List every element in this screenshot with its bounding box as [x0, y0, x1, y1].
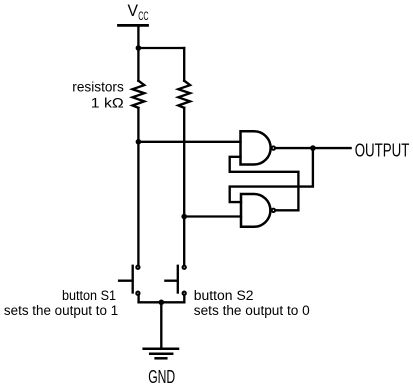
svg-text:button S2: button S2 — [194, 288, 254, 303]
node S2 reset junction dot — [181, 214, 187, 220]
nand gate U2 bubble — [272, 209, 275, 212]
node output junction dot — [310, 145, 316, 151]
svg-text:1 kΩ: 1 kΩ — [91, 95, 124, 111]
button S1 stem — [119, 280, 132, 282]
wire reset node to bottom NAND lower input — [184, 215, 241, 217]
button S1 top terminal circle — [136, 266, 139, 269]
wire feedback output node to U2 upper input — [230, 148, 313, 202]
node top junction dot — [136, 45, 142, 51]
button S1 bottom terminal circle — [136, 292, 139, 295]
label button S1 — [4, 288, 118, 318]
ground symbol bar 2 — [150, 352, 172, 355]
ground symbol bar 3 — [156, 357, 167, 360]
svg-text:button S1: button S1 — [62, 288, 116, 303]
resistor R2 1k — [178, 81, 190, 108]
wire feedback U2 output to U1 lower input — [230, 157, 299, 211]
button S2 top terminal circle — [183, 266, 186, 269]
nand gate U1 body — [241, 131, 271, 164]
svg-text:GND: GND — [148, 366, 175, 387]
wire left column to resistor R1 — [137, 48, 139, 81]
Vcc power symbol bar — [119, 24, 148, 27]
resistor R1 1k — [133, 81, 145, 108]
svg-text:sets the output to 1: sets the output to 1 — [4, 303, 118, 318]
nand gate U2 body — [241, 194, 270, 227]
node ground junction dot — [159, 300, 165, 306]
button S1 actuator bar — [132, 266, 134, 293]
svg-text:sets the output to 0: sets the output to 0 — [194, 303, 310, 318]
label button S2 — [194, 288, 310, 318]
wire top horizontal to right column — [138, 47, 184, 49]
wire Vcc bar to top node — [137, 25, 139, 48]
button S2 actuator bar — [177, 266, 179, 293]
svg-text:V: V — [128, 1, 139, 20]
button S2 stem — [165, 280, 177, 282]
node S1 set junction dot — [136, 139, 142, 145]
button S2 bottom terminal circle — [183, 292, 186, 295]
label resistors 1 kOhm — [72, 79, 124, 111]
wire left column resistor to button S1 — [137, 108, 139, 264]
ground symbol bar 1 — [144, 348, 178, 351]
wire right column resistor to button S2 — [183, 108, 185, 264]
svg-text:resistors: resistors — [72, 79, 124, 95]
wire right column to resistor R2 — [183, 48, 185, 81]
wire S1 bottom to ground rail — [137, 296, 139, 303]
wire U1 output to OUTPUT — [276, 147, 351, 149]
svg-text:CC: CC — [138, 11, 149, 23]
nand gate U1 bubble — [272, 146, 275, 149]
svg-text:OUTPUT: OUTPUT — [355, 140, 410, 161]
wire set node to top NAND upper input — [138, 141, 240, 143]
wire ground rail horizontal — [139, 301, 185, 303]
wire ground node to GND symbol — [160, 302, 162, 349]
wire S2 bottom to ground rail — [183, 296, 185, 303]
Vcc label — [128, 1, 149, 23]
